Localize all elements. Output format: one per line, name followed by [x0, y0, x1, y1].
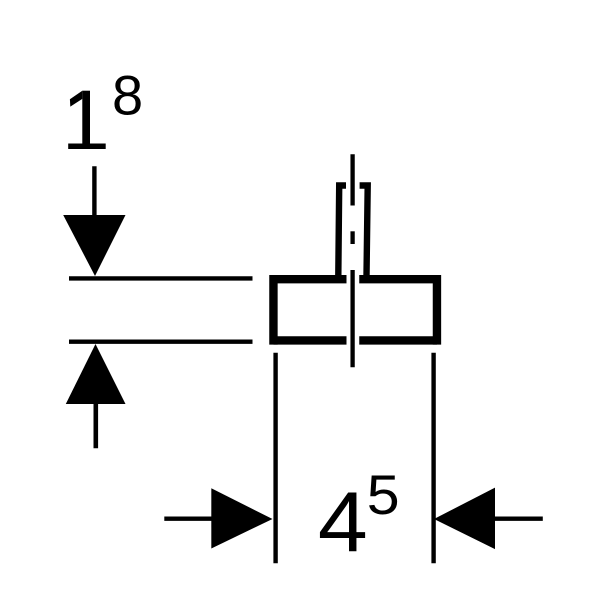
svg-text:4: 4: [318, 474, 368, 570]
svg-text:5: 5: [367, 465, 400, 527]
svg-text:8: 8: [112, 64, 143, 127]
